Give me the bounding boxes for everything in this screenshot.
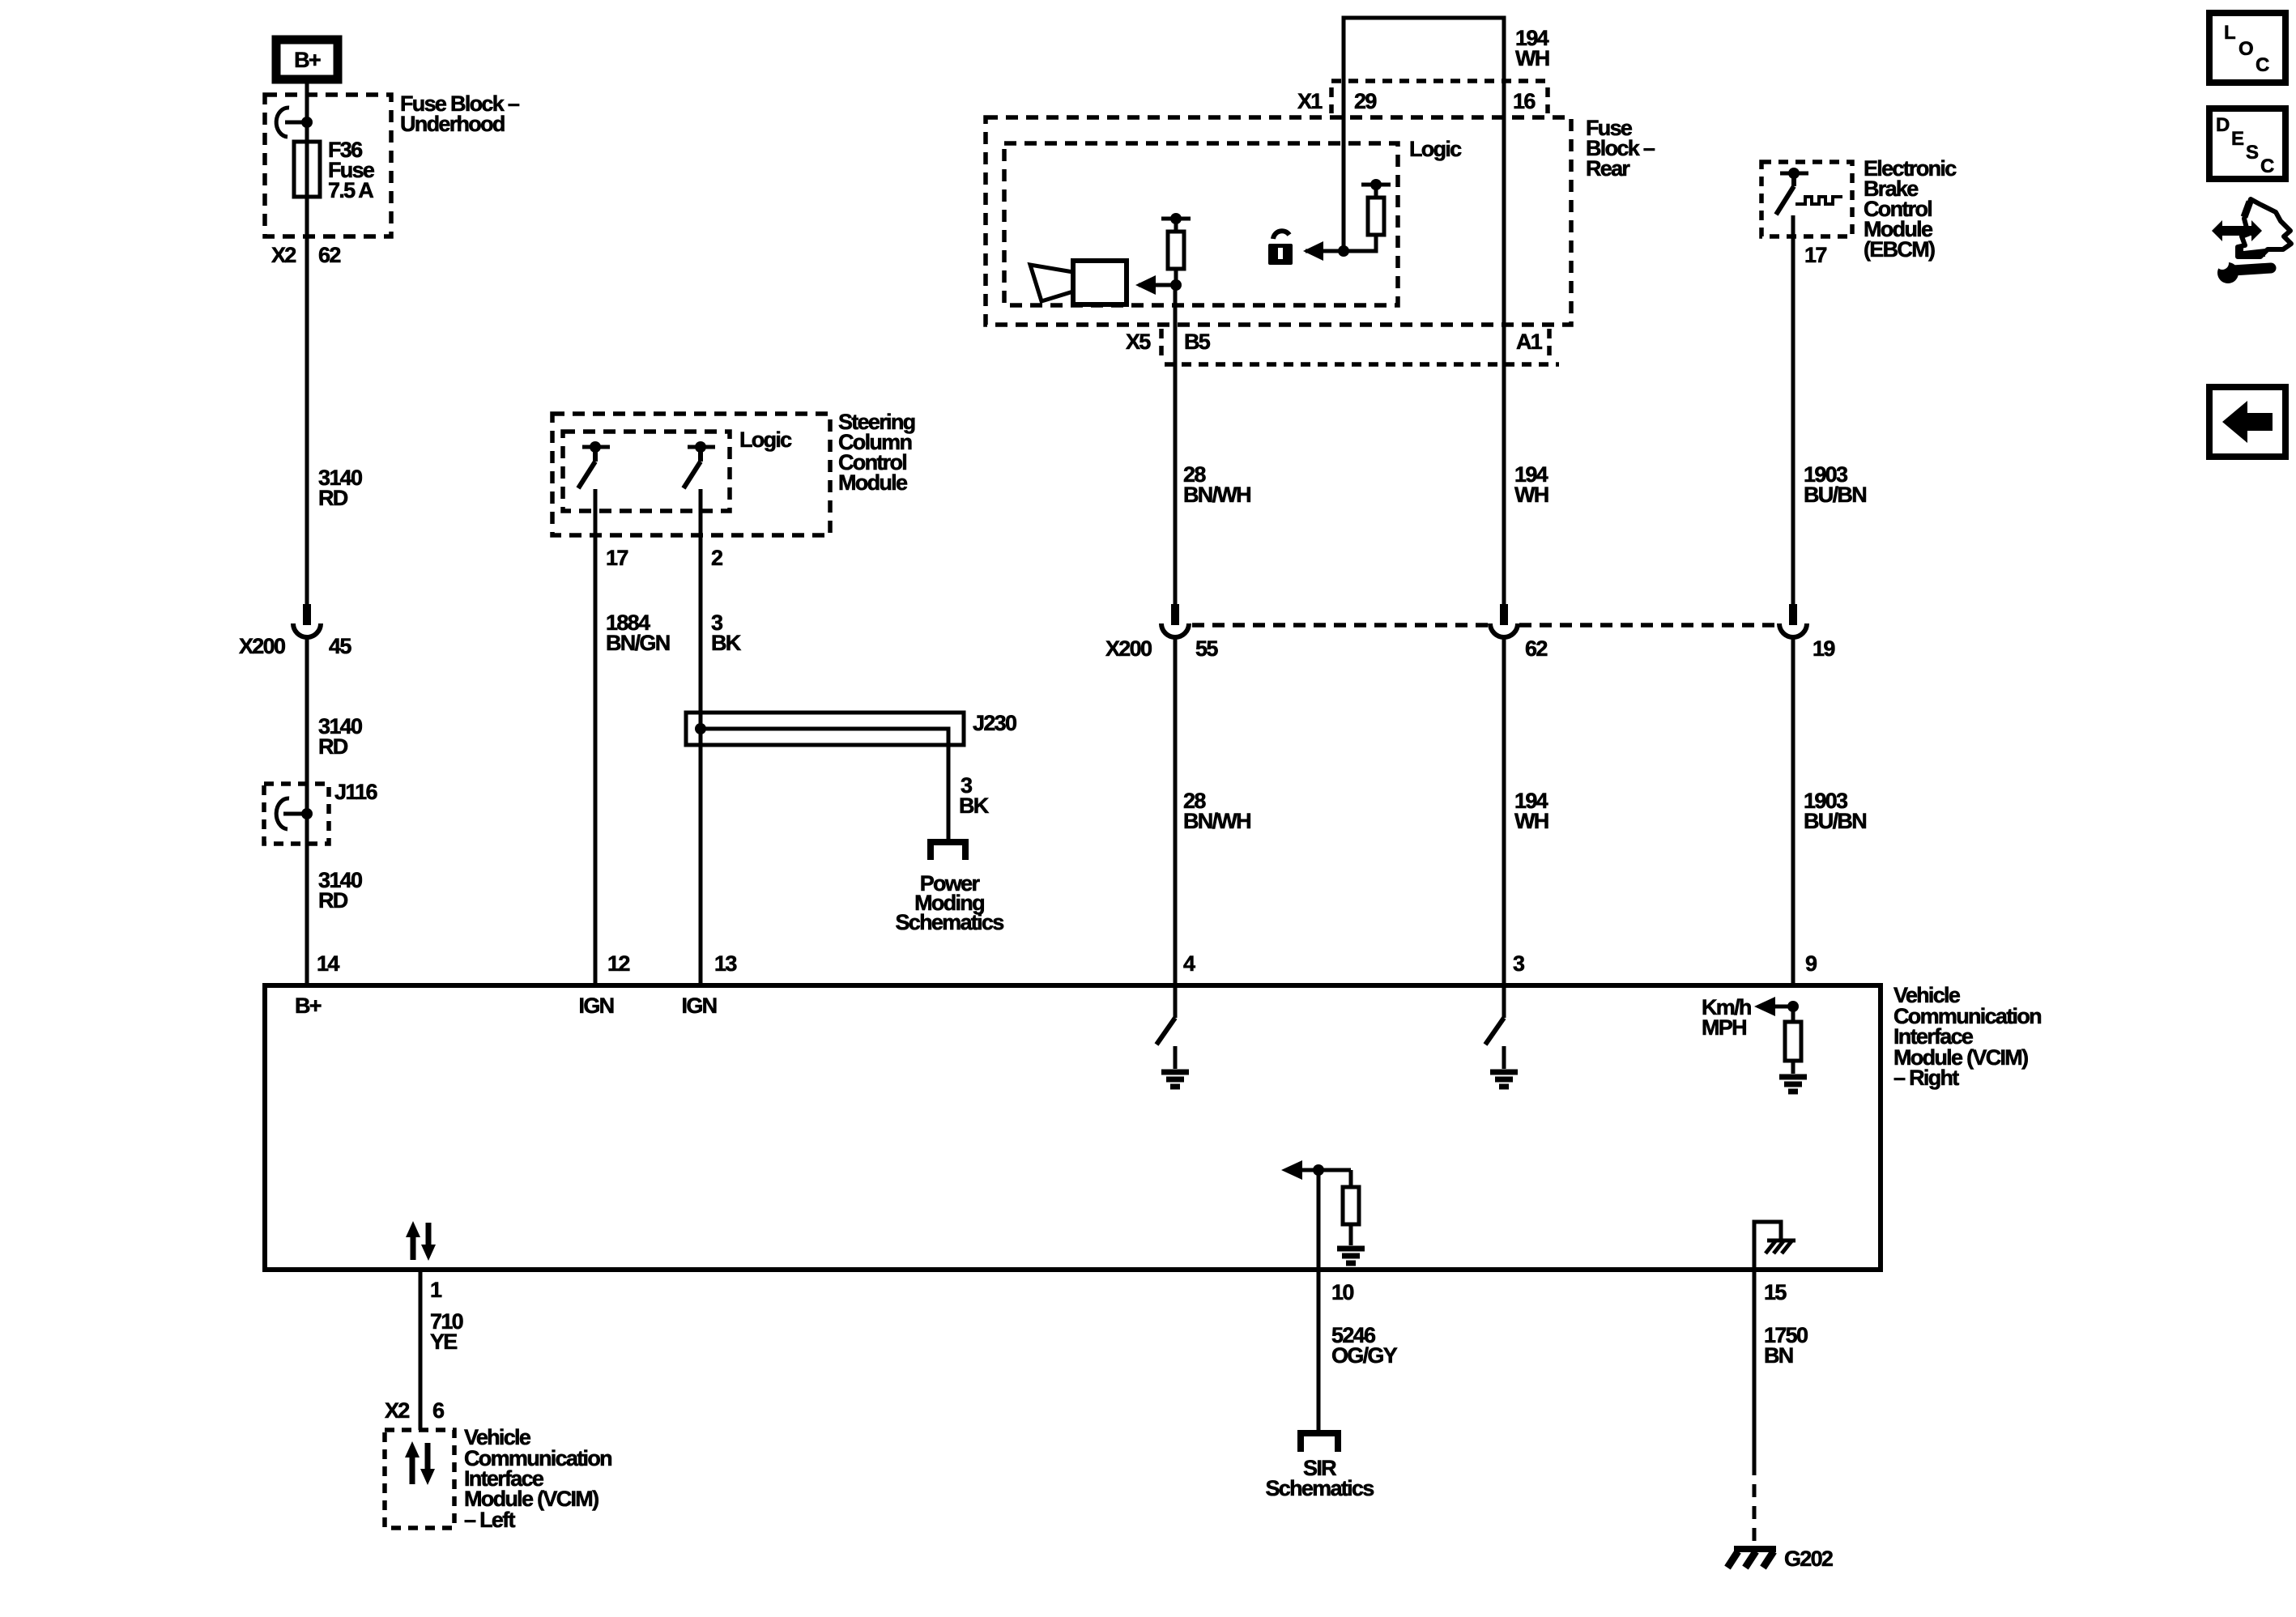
svg-text:X200: X200 — [1105, 636, 1152, 661]
chassis ground G202 — [1727, 1549, 1776, 1568]
svg-text:WH: WH — [1514, 809, 1548, 833]
svg-text:X5: X5 — [1126, 330, 1151, 354]
svg-text:BK: BK — [711, 631, 742, 655]
service glove with double arrow and wrench icon — [2212, 199, 2291, 283]
svg-text:RD: RD — [318, 888, 348, 913]
wire label 194 WH lower — [1514, 789, 1548, 833]
svg-text:C: C — [2260, 155, 2274, 177]
svg-text:4: 4 — [1183, 951, 1195, 976]
wire label 3140 RD middle — [318, 714, 362, 759]
switch to ground inside VCIM at pin 3 — [1485, 985, 1504, 1069]
svg-text:Module: Module — [838, 470, 908, 495]
label Fuse Block Underhood — [400, 91, 520, 136]
svg-text:WH: WH — [1515, 46, 1549, 70]
wire label 194 WH middle — [1514, 462, 1548, 507]
resistor to ground at pin 10 — [1343, 1170, 1359, 1245]
svg-text:X200: X200 — [239, 634, 285, 658]
switch contact in SCCM pin 2 — [684, 441, 715, 488]
svg-text:Logic: Logic — [739, 428, 792, 452]
svg-text:E: E — [2231, 128, 2244, 150]
label Vehicle Communication Interface Module VCIM Right — [1893, 983, 2041, 1090]
terminal hook symbol at splice J116 — [276, 798, 313, 829]
svg-text:OG/GY: OG/GY — [1331, 1343, 1398, 1368]
svg-text:Underhood: Underhood — [400, 112, 505, 136]
PWM square wave glyph — [1795, 197, 1842, 204]
label Steering Column Control Module — [838, 410, 915, 495]
resistor in logic box right — [1344, 179, 1391, 251]
svg-text:BN: BN — [1764, 1343, 1793, 1368]
svg-text:S: S — [2246, 142, 2259, 164]
wire X200-19 to VCIM pin 9 — [1791, 637, 1795, 985]
label Km/h MPH at pin 9 — [1702, 995, 1751, 1040]
battery feed symbol B+ — [276, 40, 338, 79]
svg-text:BK: BK — [959, 794, 990, 818]
svg-text:B5: B5 — [1184, 330, 1211, 354]
wire label 1903 BU/BN upper — [1804, 462, 1866, 507]
wire fuse block rear B5 down to connector X200-55 — [1174, 285, 1178, 606]
up down arrows inside VCIM left — [405, 1441, 435, 1485]
wire VCIM pin 15 dashed part — [1753, 1462, 1757, 1546]
electronic brake control module dashed box — [1761, 162, 1852, 236]
wire B+ feed to fuse F36 and down to connector X200-45 — [305, 83, 309, 606]
wire label 28 BN/WH upper — [1183, 462, 1250, 507]
svg-text:3: 3 — [1513, 951, 1525, 976]
wire VCIM pin 15 to ground G202 solid part — [1753, 1270, 1757, 1462]
terminal hook symbol at fuse block underhood — [276, 108, 313, 137]
label X200 55 — [1105, 636, 1218, 661]
horn speaker icon — [1030, 261, 1127, 304]
wire label 3 BK at J230 — [959, 773, 990, 818]
wire loop fuse block rear pin 29 to pin 16 — [1344, 18, 1504, 606]
svg-text:– Left: – Left — [464, 1508, 516, 1532]
connector X200 dashed tie line — [1192, 623, 1778, 628]
inline connector X200 terminal 55 — [1161, 604, 1189, 637]
label Power Moding Schematics — [895, 871, 1003, 934]
svg-text:62: 62 — [1525, 636, 1547, 661]
vehicle communication interface module left dashed box — [385, 1430, 454, 1528]
wire label 1884 BN/GN — [606, 611, 670, 655]
label Fuse Block Rear — [1586, 116, 1655, 181]
label X200 45 — [239, 634, 351, 658]
pin label X2 62 at fuse block underhood — [271, 243, 340, 267]
label Vehicle Communication Interface Module VCIM Left — [464, 1425, 611, 1532]
ground symbol at pin 9 — [1779, 1077, 1807, 1091]
svg-text:6: 6 — [432, 1398, 445, 1423]
svg-text:BU/BN: BU/BN — [1804, 809, 1866, 833]
vehicle communication interface module right box — [265, 985, 1881, 1270]
wire SCCM pin 2 to VCIM pin 13 — [699, 489, 703, 985]
svg-text:BN/WH: BN/WH — [1183, 483, 1250, 507]
svg-text:17: 17 — [606, 546, 628, 570]
wire label 3140 RD upper — [318, 466, 362, 510]
up down arrows at pin 1 inside VCIM — [406, 1221, 436, 1261]
svg-text:MPH: MPH — [1702, 1015, 1746, 1040]
svg-text:14: 14 — [317, 951, 339, 976]
ground symbol at pin 3 — [1490, 1072, 1518, 1087]
svg-text:A1: A1 — [1516, 330, 1543, 354]
svg-text:15: 15 — [1764, 1280, 1787, 1304]
svg-text:Logic: Logic — [1409, 137, 1462, 161]
svg-text:L: L — [2224, 22, 2236, 44]
svg-text:G202: G202 — [1784, 1547, 1833, 1571]
svg-text:D: D — [2216, 114, 2230, 136]
fuse block underhood dashed box — [265, 95, 391, 236]
junction node pin 29 wire to resistor — [1338, 245, 1349, 257]
wire label 3 BK upper — [711, 611, 742, 655]
fuse block rear outer dashed box — [986, 117, 1571, 325]
LOC reference icon box — [2209, 13, 2285, 83]
svg-text:IGN: IGN — [682, 994, 717, 1018]
wire label 28 BN/WH lower — [1183, 789, 1250, 833]
inline connector X200 terminal 62 — [1490, 604, 1518, 637]
svg-text:RD: RD — [318, 734, 348, 759]
svg-text:J116: J116 — [334, 780, 377, 804]
svg-text:2: 2 — [711, 546, 722, 570]
wire label 194 WH top — [1515, 26, 1549, 70]
svg-text:O: O — [2238, 38, 2254, 60]
svg-text:X2: X2 — [271, 243, 296, 267]
svg-text:BN/WH: BN/WH — [1183, 809, 1250, 833]
logic inner dashed box of SCCM — [563, 432, 730, 511]
svg-text:BU/BN: BU/BN — [1804, 483, 1866, 507]
inline connector X200 terminal 19 — [1779, 604, 1807, 637]
wire label 1903 BU/BN lower — [1804, 789, 1866, 833]
arrow to door lock function — [1303, 241, 1344, 261]
resistor in logic box left — [1161, 213, 1191, 285]
svg-text:Rear: Rear — [1586, 156, 1630, 181]
steering column control module dashed box — [552, 414, 830, 535]
junction node at pin 10 — [1313, 1164, 1324, 1176]
wire label 710 YE — [430, 1309, 463, 1354]
svg-text:B+: B+ — [294, 48, 321, 72]
svg-text:16: 16 — [1513, 89, 1536, 113]
svg-text:C: C — [2256, 54, 2269, 76]
switch contact in SCCM pin 17 — [578, 441, 610, 488]
chassis ground symbol inside VCIM at pin 15 — [1754, 1222, 1795, 1270]
inline connector X200 terminal 45 — [293, 604, 321, 637]
padlock icon unlocked — [1268, 231, 1293, 265]
off page connector to SIR schematics — [1301, 1433, 1338, 1452]
svg-text:55: 55 — [1195, 636, 1218, 661]
wire VCIM pin 1 to VCIM left module — [419, 1270, 423, 1430]
switch contact with PWM output in EBCM — [1776, 168, 1808, 215]
svg-text:– Right: – Right — [1893, 1066, 1959, 1090]
switch to ground inside VCIM at pin 4 — [1157, 985, 1175, 1069]
wire label 3140 RD lower — [318, 868, 362, 913]
svg-text:B+: B+ — [295, 994, 322, 1018]
svg-text:X2: X2 — [385, 1398, 409, 1423]
svg-text:(EBCM): (EBCM) — [1864, 237, 1935, 262]
svg-text:17: 17 — [1804, 243, 1826, 267]
DESC reference icon box — [2209, 109, 2285, 179]
svg-text:Schematics: Schematics — [1265, 1476, 1374, 1500]
splice J116 dashed box — [264, 784, 329, 844]
wire label 5246 OG/GY — [1331, 1323, 1398, 1368]
ground symbol at pin 10 — [1337, 1249, 1365, 1263]
wire pin 10 junction down to box edge — [1317, 1170, 1321, 1270]
wire label 1750 BN — [1764, 1323, 1808, 1368]
off page connector to Power Moding Schematics — [931, 842, 965, 860]
wire VCIM pin 10 to SIR schematics — [1317, 1270, 1321, 1431]
arrow speed signal at pin 9 — [1754, 997, 1793, 1016]
label F36 Fuse 7.5 A — [328, 138, 375, 202]
svg-text:BN/GN: BN/GN — [606, 631, 670, 655]
pin label X2 6 at VCIM left — [385, 1398, 445, 1423]
connector X1 dotted line of fuse block rear — [1331, 81, 1548, 113]
svg-text:62: 62 — [318, 243, 340, 267]
svg-text:Schematics: Schematics — [895, 910, 1003, 934]
ground symbol at pin 4 — [1161, 1072, 1189, 1087]
wire SCCM pin 17 to VCIM pin 12 — [594, 489, 598, 985]
svg-text:7.5 A: 7.5 A — [328, 178, 373, 202]
svg-text:9: 9 — [1805, 951, 1817, 976]
svg-text:29: 29 — [1354, 89, 1377, 113]
label Electronic Brake Control Module EBCM — [1864, 156, 1957, 262]
connector X5 labels of fuse block rear — [1126, 330, 1543, 354]
svg-text:IGN: IGN — [579, 994, 614, 1018]
svg-text:12: 12 — [607, 951, 629, 976]
label SIR Schematics — [1265, 1456, 1374, 1500]
wire connector X200-45 to splice J116 — [305, 637, 309, 985]
arrow to horn function — [1135, 275, 1176, 295]
connector X5 dotted line — [1161, 329, 1559, 364]
svg-text:RD: RD — [318, 486, 348, 510]
wire X200-62 to VCIM pin 3 — [1502, 637, 1506, 985]
svg-text:1: 1 — [430, 1278, 442, 1302]
svg-text:13: 13 — [714, 951, 737, 976]
back arrow icon box — [2209, 387, 2285, 457]
logic inner dashed box of fuse block rear — [1004, 143, 1398, 305]
svg-text:19: 19 — [1813, 636, 1835, 661]
fuse F36 7.5A — [294, 142, 320, 197]
wire X200-55 to VCIM pin 4 — [1174, 637, 1178, 985]
svg-text:45: 45 — [329, 634, 351, 658]
junction node at pin 9 — [1787, 1001, 1799, 1012]
arrow SIR signal at pin 10 — [1281, 1160, 1351, 1180]
svg-text:WH: WH — [1514, 483, 1548, 507]
svg-text:YE: YE — [430, 1330, 457, 1354]
splice pack J230 bus bar — [686, 713, 964, 839]
svg-text:J230: J230 — [973, 711, 1016, 735]
junction node B5 wire to horn arrow — [1170, 279, 1182, 291]
resistor to ground at pin 9 — [1785, 1006, 1801, 1074]
svg-text:X1: X1 — [1297, 89, 1323, 113]
wire EBCM pin 17 to VCIM pin 9 — [1791, 215, 1795, 606]
svg-text:10: 10 — [1331, 1280, 1353, 1304]
